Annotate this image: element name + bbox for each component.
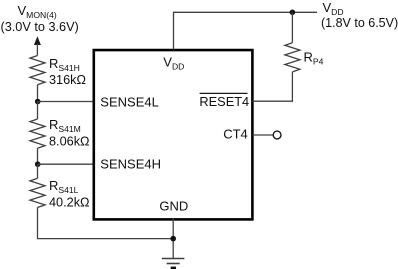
net label VMON(4) — [1, 3, 79, 34]
svg-text:40.2kΩ: 40.2kΩ — [49, 195, 90, 209]
svg-text:(1.8V to 6.5V): (1.8V to 6.5V) — [321, 16, 398, 30]
svg-text:SENSE4L: SENSE4L — [100, 95, 159, 110]
terminal CT4 open circle — [273, 131, 281, 139]
resistor RS41M 8.06k — [30, 102, 90, 165]
svg-text:316kΩ: 316kΩ — [49, 73, 86, 87]
node SENSE4L junction — [35, 99, 41, 105]
svg-text:(3.0V to 3.6V): (3.0V to 3.6V) — [1, 20, 79, 34]
resistor RS41L 40.2k — [30, 164, 90, 209]
svg-text:VDD: VDD — [163, 55, 184, 72]
wire from RS41L bottom to ground node — [38, 208, 174, 239]
IC U1 body — [94, 50, 253, 219]
net label VDD — [321, 0, 398, 30]
wire CT4 — [253, 134, 274, 136]
svg-text:SENSE4H: SENSE4H — [100, 156, 161, 171]
wire VDD pin to VDD rail — [174, 12, 318, 49]
svg-text:GND: GND — [159, 199, 188, 214]
svg-text:8.06kΩ: 8.06kΩ — [49, 134, 90, 148]
node GND junction — [170, 236, 176, 242]
node VDD junction — [290, 10, 296, 16]
resistor RP4 — [285, 12, 324, 101]
svg-text:VMON(4): VMON(4) — [18, 3, 57, 20]
wire GND pin to ground — [172, 218, 174, 259]
pin RESET4 (active low) — [199, 93, 249, 109]
resistor RS41H 316k — [30, 56, 86, 102]
svg-text:VDD: VDD — [323, 0, 344, 17]
svg-text:RP4: RP4 — [304, 50, 324, 67]
wire RESET4 to RP4 — [253, 100, 294, 102]
ground symbol — [162, 259, 185, 268]
svg-text:RS41M: RS41M — [49, 117, 81, 134]
wire SENSE4H — [38, 163, 94, 165]
svg-text:RESET4: RESET4 — [199, 94, 249, 109]
svg-text:RS41H: RS41H — [49, 56, 80, 73]
svg-text:CT4: CT4 — [223, 127, 248, 142]
node SENSE4H junction — [35, 161, 41, 167]
supply arrow VMON(4) — [34, 36, 41, 55]
svg-text:RS41L: RS41L — [49, 178, 79, 195]
wire SENSE4L — [38, 101, 94, 103]
